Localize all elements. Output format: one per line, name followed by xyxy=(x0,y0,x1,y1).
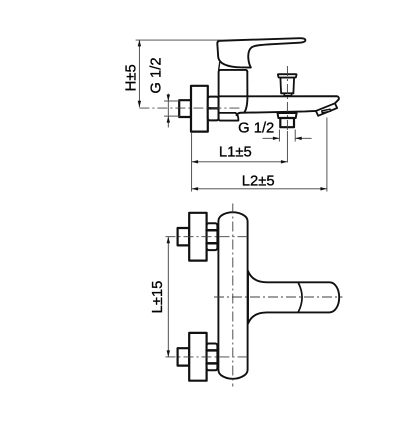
dimension texts xyxy=(123,57,274,313)
body right edge and fillet into spout underside xyxy=(244,72,247,113)
spout white fill xyxy=(219,96,339,116)
centerline diverter and shower outlet (upper view) xyxy=(286,66,288,132)
arrowheads xyxy=(138,40,327,357)
arrow G12 upper from below xyxy=(167,116,170,123)
spout top edge and tip end face xyxy=(219,96,339,103)
top wall square connector (lower view) xyxy=(178,228,190,245)
ext lines G12 mid xyxy=(278,130,280,142)
bottom hex nut (lower view) xyxy=(207,344,218,371)
hex nut band (upper view) xyxy=(208,107,219,109)
arrow G12 upper from above xyxy=(167,95,170,102)
spout underside xyxy=(237,111,316,115)
centerline wall inlet (upper view) xyxy=(139,107,241,109)
diverter knob body xyxy=(280,78,294,94)
vertical body tube (lower view) xyxy=(218,212,247,379)
lever handle (upper view) xyxy=(217,38,305,67)
top hex nut (lower view) xyxy=(207,223,218,250)
svg-text:H±5: H±5 xyxy=(123,64,139,91)
ext line wall plane xyxy=(191,133,193,192)
arrow G12 mid left xyxy=(273,137,280,140)
top hex nut bands xyxy=(207,229,218,232)
centerline spout axis (lower view) xyxy=(214,296,343,298)
arrow L2 left xyxy=(192,187,199,190)
bottom wall square connector (lower view) xyxy=(178,348,190,365)
wall connector square G1/2 (upper view) xyxy=(179,100,191,117)
spout tube plan (lower view) xyxy=(248,271,339,324)
faucet body white fill xyxy=(219,70,248,121)
svg-text:L2±5: L2±5 xyxy=(242,173,275,189)
centerline bottom inlet (lower view) xyxy=(166,356,249,358)
arrow L1 right xyxy=(281,160,288,163)
centerline top inlet (lower view) xyxy=(166,236,249,238)
arrow L1 left xyxy=(192,160,199,163)
svg-text:L±15: L±15 xyxy=(150,281,166,314)
svg-text:G 1/2: G 1/2 xyxy=(149,57,165,93)
aerator slot xyxy=(322,109,331,113)
diverter knob stem xyxy=(284,93,291,95)
top wall flange (lower view) xyxy=(189,213,206,261)
svg-text:G 1/2: G 1/2 xyxy=(238,121,274,137)
shower outlet flange below spout xyxy=(278,113,297,118)
diverter knob cap xyxy=(278,74,297,77)
arrow L bottom xyxy=(167,350,170,357)
aerator housing at spout tip xyxy=(316,103,337,116)
ext line shower outlet center xyxy=(286,131,288,163)
dim G12 mid tails xyxy=(263,137,280,139)
shower outlet nut G 1/2 xyxy=(280,118,294,127)
wall flange escutcheon (upper view) xyxy=(191,86,208,132)
spout joint arc (lower view) xyxy=(298,283,302,312)
bottom hex nut bands xyxy=(207,349,218,352)
svg-text:L1±5: L1±5 xyxy=(219,144,252,160)
dim L1 line xyxy=(192,161,288,163)
body bulge top line xyxy=(219,112,236,114)
centerlines xyxy=(139,66,342,387)
dim G12 upper line xyxy=(167,94,169,128)
arrow G12 mid right xyxy=(295,137,302,140)
dim L2 line xyxy=(192,188,327,190)
ext line handle top xyxy=(136,39,221,41)
arrow H bottom xyxy=(138,101,141,108)
arrow H top xyxy=(138,40,141,47)
dimension thin lines xyxy=(136,40,327,357)
ext line spout tip xyxy=(326,118,328,192)
bottom wall flange (lower view) xyxy=(189,333,206,381)
dim H line xyxy=(138,40,140,107)
hex nut (upper view) xyxy=(208,97,219,121)
ext lines G12 upper xyxy=(164,100,180,102)
centerline body axis (lower view) xyxy=(232,204,234,387)
arrow L2 right xyxy=(320,187,327,190)
handle neck sliver xyxy=(219,62,220,70)
body outline: top edge, left edge, bottom xyxy=(219,70,248,121)
body bottom step curve xyxy=(235,113,238,121)
dim L line (lower view) xyxy=(167,237,169,357)
arrow L top xyxy=(167,237,170,244)
